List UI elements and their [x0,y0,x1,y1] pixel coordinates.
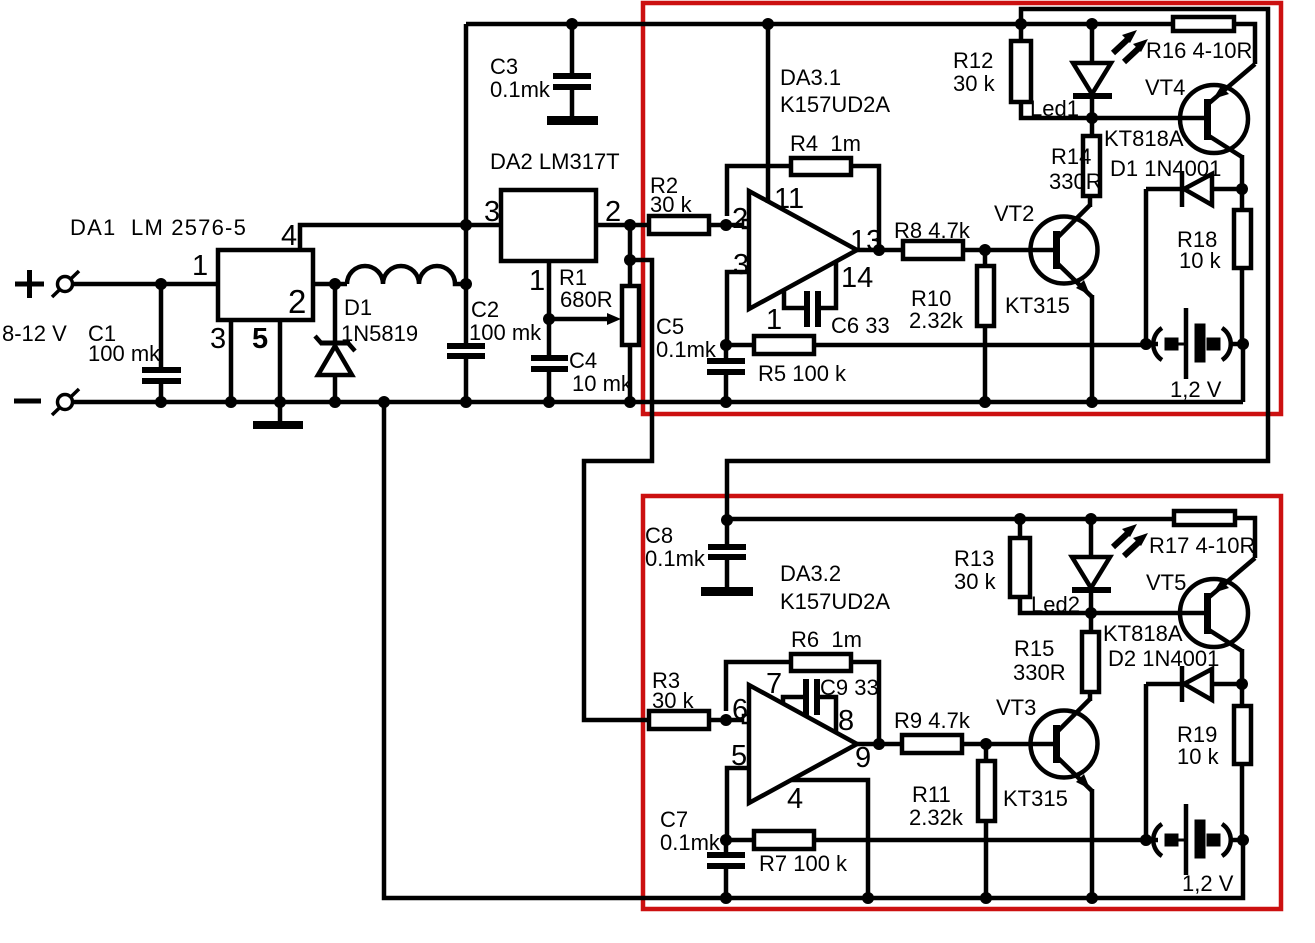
svg-text:5: 5 [252,323,268,355]
resistor R3 30k [649,711,742,729]
resistor R18 10k [1234,189,1251,344]
svg-text:C8: C8 [645,523,673,548]
svg-text:1: 1 [529,265,545,297]
resistor R15 330R [1082,613,1099,692]
svg-text:1: 1 [766,304,782,336]
node VT4 collector / D1 / R18 [1236,183,1248,195]
svg-text:30 k: 30 k [954,569,997,594]
svg-text:30 k: 30 k [652,688,695,713]
ground symbol C3 [547,116,598,125]
capacitor C9 33 (pins 7-8) [783,679,836,733]
supply stub over to right side (y9 line) [727,9,1268,520]
node VT3 emitter rail [1086,892,1098,904]
wire DA1 pin 3 down to rail [229,320,234,402]
resistor R5 100k [726,336,1146,354]
node C3 top [566,18,578,30]
svg-text:DA1 LM 2576-5: DA1 LM 2576-5 [70,215,247,240]
wire ground rail down to box2 bottom rail [384,402,1243,898]
node Led2 top rail [1085,513,1097,525]
node battery1 left [1140,338,1152,350]
node R9/R11 [980,738,992,750]
svg-text:KT818A: KT818A [1104,126,1184,151]
svg-text:2.32k: 2.32k [909,308,964,333]
node ground rail to box2 [378,396,390,408]
resistor R7 100k [726,831,1146,849]
svg-text:VT2: VT2 [994,201,1034,226]
plus terminal symbol [15,270,44,298]
wire bottom rail up to battery right [1241,344,1246,402]
node C1 bottom [155,396,167,408]
resistor R10 2.32k [977,250,994,402]
svg-text:2.32k: 2.32k [909,805,964,830]
inductor L (3 humps) [347,266,466,284]
svg-text:1N5819: 1N5819 [341,321,418,346]
node output/R4 [873,244,885,256]
svg-text:11: 11 [774,183,804,215]
svg-text:VT4: VT4 [1145,75,1185,100]
transistor VT5 KT818A [1180,558,1255,684]
node R1 bottom rail [624,396,636,408]
wire DA1 pin 2 to inductor [313,282,347,287]
node C4 rail [543,396,555,408]
svg-text:680R: 680R [560,287,613,312]
svg-text:Led2: Led2 [1031,592,1080,617]
svg-text:7: 7 [766,668,782,700]
wire opamp1 pin3 to C5 node [727,272,749,345]
capacitor C8 [708,520,746,587]
svg-text:4: 4 [281,220,297,252]
wire DA2 pin 1 down [547,261,552,319]
svg-text:10 mk: 10 mk [572,371,633,396]
svg-text:C9 33: C9 33 [820,675,879,700]
svg-text:DA3.1: DA3.1 [780,65,841,90]
svg-text:KT315: KT315 [1005,293,1070,318]
svg-text:R15: R15 [1014,636,1054,661]
op-amp U DA3.2 triangle [749,685,857,803]
svg-text:6: 6 [732,694,748,726]
svg-text:C5: C5 [656,314,684,339]
node DA2 pin2 junction [624,219,636,231]
ground symbol under DA1 [253,421,303,429]
node R2 right / R4 junction [720,219,732,231]
svg-text:100 mk: 100 mk [88,341,161,366]
diode D1 1N4001 [1146,171,1242,344]
capacitor C7 [707,840,745,898]
node pin4 rail [862,892,874,904]
R1 wiper arrow [549,313,621,325]
capacitor C6 33 (pins 1-14) [784,261,836,327]
svg-text:R4 1m: R4 1m [790,131,861,156]
capacitor C1 [142,284,181,402]
input connector - (circle with slash) [52,389,79,415]
svg-text:330R: 330R [1049,169,1102,194]
svg-text:R8 4.7k: R8 4.7k [894,218,971,243]
svg-text:0.1mk: 0.1mk [490,77,551,102]
node R8/R10 [979,244,991,256]
battery GB2 1.2V [1146,804,1243,875]
node Led1 top rail [1086,18,1098,30]
node pin11 top rail [762,18,774,30]
resistor R2 30k [649,216,742,234]
wire VT4 base [1092,116,1204,121]
wire opamp2 output [857,742,902,747]
svg-text:R14: R14 [1051,144,1091,169]
resistor R17 4-10R [1174,511,1255,558]
svg-text:8: 8 [838,705,854,737]
Led1 emission arrows [1113,30,1148,62]
node C8 / box2 supply [721,514,733,526]
red frame box 2 (lower charger channel) [643,496,1281,909]
svg-text:R16 4-10R: R16 4-10R [1146,38,1252,63]
battery GB1 1.2V [1146,308,1243,379]
svg-text:9: 9 [855,742,871,774]
svg-text:3: 3 [733,249,749,281]
regulator DA2 LM317T box [501,190,596,261]
svg-text:100 mk: 100 mk [469,320,542,345]
potentiometer R1 680R body [622,225,639,402]
capacitor C2 [447,346,485,402]
node R1 wiper tap [543,313,555,325]
svg-text:C4: C4 [569,348,597,373]
svg-text:1,2 V: 1,2 V [1170,377,1222,402]
svg-text:R17 4-10R: R17 4-10R [1149,533,1255,558]
wire opamp2 pin4 to ground rail [791,780,868,898]
node battery2 right [1237,834,1249,846]
resistor R12 30k [1011,24,1092,118]
capacitor C4 [531,319,568,402]
node R12 top rail [1015,18,1027,30]
svg-text:30 k: 30 k [953,71,996,96]
node R11 rail [980,892,992,904]
svg-text:330R: 330R [1013,660,1066,685]
pin square opamp1 inverting input [743,220,751,228]
svg-text:D2 1N4001: D2 1N4001 [1108,646,1219,671]
svg-text:4: 4 [787,783,803,815]
svg-text:30 k: 30 k [650,192,693,217]
node VT2 emitter rail [1086,396,1098,408]
box2 top rail [727,517,1174,522]
ground symbol C8 [701,587,753,596]
top rail from corner to R16 [466,22,1173,27]
transistor VT4 KT818A [1180,64,1255,189]
node C1 top [155,278,167,290]
node battery2 left [1140,834,1152,846]
node led/R12/R14/base [1086,112,1098,124]
resistor R6 1m feedback [726,654,879,744]
LED Led1 [1073,24,1112,118]
node pin5 rail [274,396,286,408]
svg-text:0.1mk: 0.1mk [660,830,721,855]
LED Led2 [1072,519,1111,613]
svg-text:10 k: 10 k [1179,248,1222,273]
node pin5/R7/C7 [720,834,732,846]
node VT5 collector / D2 / R19 [1236,678,1248,690]
svg-text:KT315: KT315 [1003,786,1068,811]
resistor R16 4-10R [1173,17,1255,64]
wire DA1 pin 5 down to ground [278,320,283,421]
red frame box 1 (upper charger channel) [643,3,1281,414]
node C7 rail [720,892,732,904]
svg-text:3: 3 [484,196,500,228]
resistor R14 330R [1083,118,1100,196]
node D1 top [329,278,341,290]
pin square opamp2 inverting input [743,715,751,723]
svg-text:2: 2 [732,203,748,235]
wire DA2 pin 2 to R2 [596,223,649,228]
svg-text:R13: R13 [954,546,994,571]
node DA2 pin3 junction [460,219,472,231]
transistor VT2 KT315 [1031,196,1098,402]
node R3 right / R6 junction [720,714,732,726]
input connector + (circle with slash) [52,271,79,297]
resistor R4 1m feedback [727,158,879,250]
minus terminal symbol [14,399,41,404]
svg-text:10 k: 10 k [1177,744,1220,769]
wire opamp2 pin5 to C7 node [727,768,749,840]
op-amp U DA3.1 triangle [749,191,857,309]
svg-text:C7: C7 [660,807,688,832]
wire DA1 pin 4 up and right to DA2 pin 3 [300,225,501,250]
svg-text:R6 1m: R6 1m [791,627,862,652]
capacitor C5 [707,345,745,402]
resistor R8 4.7k [903,241,1054,259]
svg-text:C3: C3 [490,54,518,79]
svg-text:C2: C2 [471,297,499,322]
resistor R9 4.7k [902,735,1054,753]
node R13 top rail [1014,513,1026,525]
svg-text:1: 1 [192,250,208,282]
svg-text:D1: D1 [344,295,372,320]
Led2 emission arrows [1113,524,1148,556]
regulator DA1 LM2576-5 box [218,250,313,320]
svg-text:R11: R11 [912,782,951,807]
svg-text:R9 4.7k: R9 4.7k [894,708,971,733]
node battery1 right [1237,338,1249,350]
svg-text:DA3.2: DA3.2 [780,561,841,586]
node R10 rail [979,396,991,408]
svg-text:1,2 V: 1,2 V [1182,871,1234,896]
node D1 bottom rail [329,396,341,408]
svg-text:Led1: Led1 [1030,96,1079,121]
wire opamp1 output [857,248,903,253]
svg-text:14: 14 [841,262,873,294]
svg-text:2: 2 [288,283,306,320]
resistor R19 10k [1234,684,1251,840]
node led2/R13/R15/base [1085,607,1097,619]
node pin3 rail [225,396,237,408]
node R1 top tap [624,254,636,266]
svg-text:R12: R12 [953,48,993,73]
svg-text:0.1mk: 0.1mk [656,337,717,362]
wire DA2 output node down to lower opamp input [584,260,652,720]
svg-text:DA2 LM317T: DA2 LM317T [490,149,620,174]
node pin3/R5/C5 [720,339,732,351]
wire VT5 base [1091,611,1204,616]
wire opamp1 pin 11 supply from top rail [766,24,771,203]
svg-text:8-12 V: 8-12 V [2,321,67,346]
node C5 rail [720,396,732,408]
svg-text:K157UD2A: K157UD2A [780,589,890,614]
ground rail (minus bus) [72,400,1243,405]
capacitor C3 [553,24,591,116]
diode D1 1N5819 (schottky) [315,284,355,402]
svg-text:KT818A: KT818A [1103,621,1183,646]
svg-text:VT5: VT5 [1146,570,1186,595]
node output/R6 [873,738,885,750]
svg-text:R5 100 k: R5 100 k [758,361,847,386]
svg-text:K157UD2A: K157UD2A [780,92,890,117]
transistor VT3 KT315 [1031,692,1098,898]
svg-text:0.1mk: 0.1mk [645,546,706,571]
resistor R11 2.32k [978,744,995,898]
resistor R13 30k [1010,519,1091,613]
node C2 rail [460,396,472,408]
node inductor right / C2 top [460,278,472,290]
wire + input to DA1 pin 1 [72,282,218,287]
svg-text:3: 3 [210,323,226,355]
svg-text:VT3: VT3 [996,695,1036,720]
svg-text:R7 100 k: R7 100 k [759,851,848,876]
wire vertical node x466 (top rail down to C2) [464,24,469,346]
diode D2 1N4001 [1146,666,1242,840]
svg-text:C6 33: C6 33 [831,313,890,338]
